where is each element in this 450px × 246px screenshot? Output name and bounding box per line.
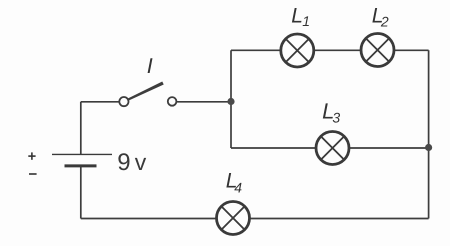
svg-text:3: 3 bbox=[332, 109, 340, 125]
svg-text:I: I bbox=[147, 54, 153, 78]
svg-text:2: 2 bbox=[380, 14, 389, 30]
svg-text:L: L bbox=[291, 5, 303, 28]
svg-text:4: 4 bbox=[234, 180, 242, 196]
svg-text:v: v bbox=[135, 149, 147, 175]
svg-text:9: 9 bbox=[117, 149, 130, 176]
svg-text:1: 1 bbox=[302, 13, 310, 29]
